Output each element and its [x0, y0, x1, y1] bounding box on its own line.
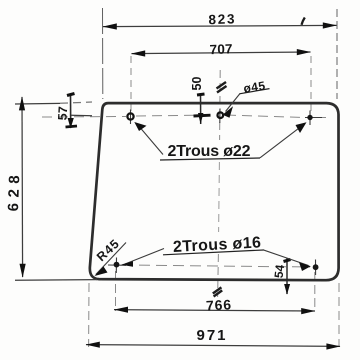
svg-text:707: 707: [209, 41, 233, 57]
svg-text:766: 766: [206, 296, 232, 313]
svg-text:57: 57: [56, 106, 71, 121]
svg-text:971: 971: [197, 327, 227, 344]
svg-text:R45: R45: [94, 236, 123, 264]
svg-text:ø45: ø45: [242, 78, 266, 95]
svg-text:2Trous ø22: 2Trous ø22: [168, 143, 251, 160]
svg-text:54: 54: [272, 264, 288, 279]
svg-text:2Trous ø16: 2Trous ø16: [173, 234, 262, 256]
svg-text:823: 823: [208, 11, 235, 27]
svg-text:628: 628: [5, 170, 23, 212]
svg-text:50: 50: [190, 77, 204, 91]
